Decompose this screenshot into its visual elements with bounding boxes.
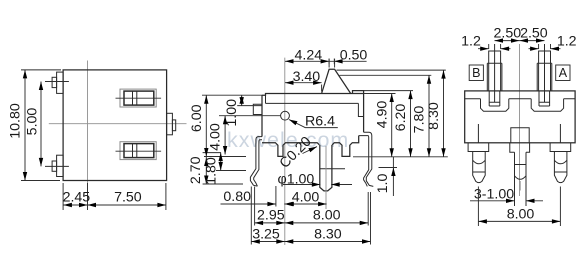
right bottom pin — [550, 143, 571, 152]
svg-text:0.80: 0.80 — [223, 189, 251, 205]
dim 8.00 right view — [478, 187, 560, 227]
dim 1.0 — [392, 157, 394, 196]
dim 8.30 (middle view right) — [443, 70, 445, 157]
dim 1.00 — [241, 95, 243, 105]
upper terminal window — [120, 89, 156, 107]
dim 4.24 / 0.50 top — [322, 59, 335, 92]
svg-text:0.50: 0.50 — [340, 48, 368, 64]
svg-text:4.00: 4.00 — [292, 189, 320, 205]
bottom edge with legs and centre pin root — [262, 136, 359, 157]
label box A — [556, 65, 570, 81]
R6.4 leader — [289, 120, 338, 128]
svg-text:3.40: 3.40 — [293, 69, 321, 85]
svg-text:A: A — [559, 66, 568, 80]
top lug centerline — [45, 81, 69, 83]
dim 2.70 — [205, 157, 207, 185]
top mounting lug — [57, 72, 64, 93]
dim 3-1.00 — [470, 200, 543, 202]
body outline right view — [465, 91, 575, 143]
dim 7.80 — [428, 75, 430, 157]
lower terminal window — [120, 142, 156, 160]
svg-text:2.50: 2.50 — [520, 26, 548, 42]
dim 0.80 / 4.00 bottom — [221, 203, 292, 205]
bottom extension lines middle view — [251, 186, 370, 245]
inner lid line — [266, 94, 364, 117]
svg-text:2.95: 2.95 — [257, 208, 285, 224]
centre pin base block — [511, 128, 529, 143]
svg-text:1.0: 1.0 — [375, 174, 391, 194]
left bent pin (thin strip with kink) — [250, 137, 262, 187]
dim 6.20 — [410, 91, 412, 157]
dim 6.00 — [205, 95, 207, 156]
label box B — [469, 65, 483, 81]
svg-text:6.20: 6.20 — [393, 104, 409, 132]
pivot hole — [281, 111, 290, 120]
dim 1.2 right — [539, 44, 551, 49]
svg-text:4.90: 4.90 — [374, 101, 390, 129]
dim 3.40 — [285, 82, 322, 84]
svg-text:3-1.00: 3-1.00 — [474, 186, 514, 202]
dim 1.80 — [220, 153, 222, 171]
centre bottom pin — [510, 143, 530, 153]
centerline horizontal left view — [49, 123, 187, 125]
svg-text:3.25: 3.25 — [252, 227, 280, 243]
dim 1.2 left — [489, 44, 501, 49]
right bent pin (thin strip with kink) — [364, 132, 374, 186]
dim 2.95 / 8.00 bottom — [255, 222, 369, 224]
centerline vertical left view — [87, 61, 89, 211]
bottom mounting lug — [57, 155, 64, 176]
bottom lug centerline — [45, 165, 69, 167]
centerline right view — [519, 44, 521, 196]
svg-text:8.00: 8.00 — [507, 206, 535, 222]
svg-text:8.30: 8.30 — [426, 102, 442, 130]
C0.20 leader — [303, 147, 318, 154]
left extension lines middle view — [202, 94, 262, 96]
svg-text:R6.4: R6.4 — [305, 114, 335, 130]
svg-text:7.50: 7.50 — [114, 189, 142, 205]
left bottom pin — [468, 143, 489, 152]
centre pin centerline — [325, 146, 327, 209]
lever hump on top — [322, 69, 351, 93]
svg-text:4.24: 4.24 — [294, 48, 322, 64]
dim 4.00 (left) — [224, 116, 226, 155]
dim 3.25 / 8.30 bottom — [251, 241, 370, 243]
svg-text:4.00: 4.00 — [208, 123, 224, 151]
svg-text:8.30: 8.30 — [314, 227, 342, 243]
body outline left view — [63, 70, 167, 181]
svg-text:B: B — [472, 66, 480, 80]
datum centerline through pivot hole — [284, 58, 286, 245]
dim phi 1.00 — [283, 184, 352, 186]
svg-text:10.80: 10.80 — [8, 103, 24, 139]
dim 2.50 2.50 top — [495, 40, 545, 42]
svg-text:φ1.00: φ1.00 — [278, 171, 315, 187]
svg-text:8.00: 8.00 — [313, 208, 341, 224]
dim 10.80 — [21, 70, 61, 181]
svg-text:6.00: 6.00 — [189, 104, 205, 132]
centre pin (middle view) — [320, 145, 332, 191]
side pin shanks inside body — [478, 124, 560, 143]
left small tab — [253, 104, 262, 114]
svg-text:1.2: 1.2 — [461, 34, 481, 50]
svg-text:1.80: 1.80 — [203, 157, 219, 185]
dim 2.45 / 7.50 — [63, 183, 166, 210]
svg-text:1.2: 1.2 — [557, 34, 577, 50]
right extension lines middle view — [337, 69, 446, 71]
left terminal post B — [489, 51, 501, 63]
top channel profile — [465, 99, 575, 111]
svg-text:2.45: 2.45 — [63, 189, 91, 205]
right terminal post A — [539, 51, 551, 63]
dim 4.90 — [391, 94, 393, 157]
svg-text:2.70: 2.70 — [188, 156, 204, 184]
svg-text:5.00: 5.00 — [25, 108, 41, 136]
dim 5.00 — [40, 82, 42, 167]
svg-text:2.50: 2.50 — [493, 26, 521, 42]
right side protrusion — [167, 113, 173, 135]
body outline middle view — [262, 94, 364, 96]
